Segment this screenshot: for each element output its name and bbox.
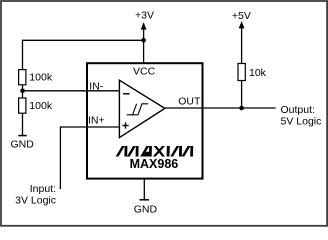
- svg-text:Input:: Input:: [30, 183, 56, 195]
- svg-text:GND: GND: [134, 204, 158, 216]
- svg-text:10k: 10k: [249, 67, 267, 79]
- svg-text:+5V: +5V: [232, 10, 251, 22]
- svg-text:+3V: +3V: [135, 10, 154, 22]
- svg-text:IN+: IN+: [88, 115, 105, 127]
- svg-text:100k: 100k: [29, 100, 53, 112]
- svg-text:Output:: Output:: [281, 104, 315, 116]
- svg-text:OUT: OUT: [178, 97, 201, 108]
- svg-text:VCC: VCC: [133, 66, 156, 78]
- svg-text:5V Logic: 5V Logic: [281, 116, 322, 128]
- svg-text:3V Logic: 3V Logic: [15, 195, 56, 207]
- svg-text:100k: 100k: [29, 72, 53, 84]
- svg-text:GND: GND: [11, 139, 35, 151]
- svg-text:MAX986: MAX986: [130, 157, 179, 171]
- svg-text:IN-: IN-: [89, 81, 104, 93]
